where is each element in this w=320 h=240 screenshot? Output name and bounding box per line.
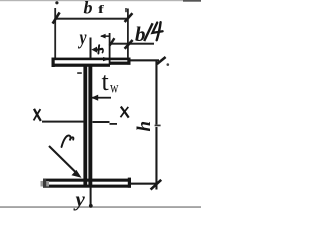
dimension b_f: right extension line [127,9,129,58]
h bottom extension line [129,183,158,185]
dot right of h top tick [167,63,170,66]
svg-text:y: y [78,26,87,50]
dimension h: dim line [155,60,157,125]
svg-text:b: b [135,22,146,46]
top edge scan line [0,0,201,1]
label x (right) [121,107,129,118]
bottom flange: right tip cap [128,178,131,188]
dimension b/4: extension line down through flange [109,33,111,65]
dimension b_f: dim line [55,18,129,20]
top flange: inner line right segment [110,62,131,65]
h top extension line [131,59,160,61]
tick at b/4 right [125,40,133,49]
t_f label (rotated) with left arrowhead [91,47,97,53]
dimension b_f: left extension line [54,8,56,59]
top flange: top line [52,58,131,61]
top flange: left tip cap [52,58,55,67]
dimension b/4: dim line [110,43,155,45]
tick left of b_f [53,12,60,23]
r arrowhead [72,170,82,178]
label r [62,136,74,147]
svg-text:w: w [110,80,119,97]
top flange: inner line left segment [52,64,111,67]
x axis left segment [42,121,85,123]
tick at b/4 left [110,38,115,45]
small dash left of web [77,72,82,74]
t_f upper arrow (points left) [101,35,109,37]
x axis right sag segment [110,123,118,125]
dash across h line gap [155,125,161,127]
bottom flange: bottom line [43,185,131,188]
svg-text:b: b [84,0,93,17]
arrowhead on flange top line pointing right [103,57,111,61]
svg-text:t: t [102,67,110,96]
label x (left) [34,109,41,121]
bottom flange: left tip cap (faint) [41,181,50,187]
tick right of b_f [125,13,133,22]
y axis lower segment [90,188,92,206]
dot at end of y axis [89,204,93,208]
tick at h top [157,57,166,64]
dot above left extension [55,1,58,4]
bottom edge scan line [0,206,201,208]
r leader line [49,146,79,175]
tick at h bottom [151,180,162,190]
x axis right segment [93,121,110,123]
bottom flange: inner (top) line [43,179,131,182]
web left line [83,65,87,187]
web right line [88,65,92,187]
small dash at top of right extension [125,8,127,12]
t_w arrow line [92,97,111,99]
y axis upper segment [90,38,92,59]
top flange: right tip cap [127,58,130,65]
svg-text:h: h [134,121,155,132]
